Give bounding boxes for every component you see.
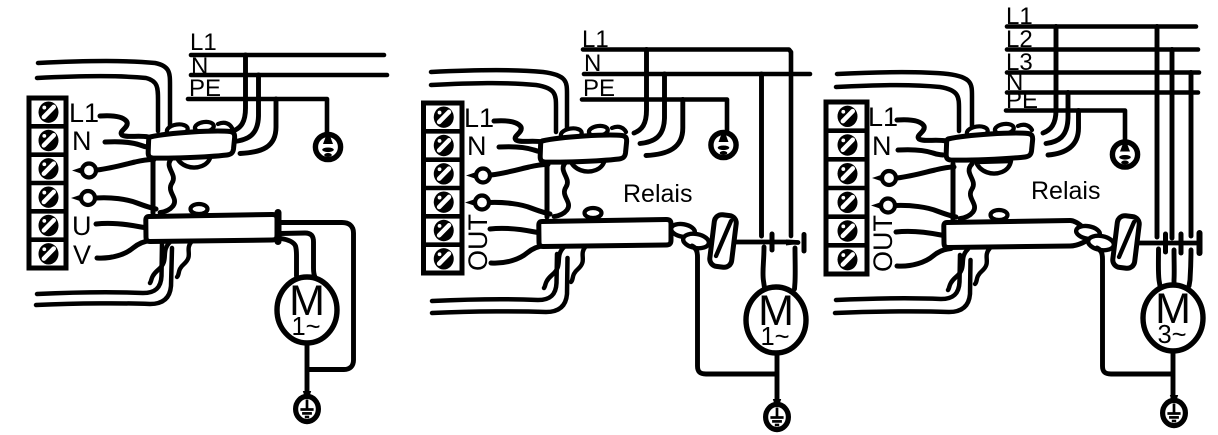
svg-text:L1: L1 <box>69 98 99 128</box>
wire bundle bottom-left P1 (inner) <box>36 248 172 305</box>
svg-text:1~: 1~ <box>291 313 320 341</box>
contact tick 2 P2 <box>802 235 807 252</box>
screw terminal X3.4 <box>838 192 858 213</box>
wire eyelet2 to controller P3 <box>896 205 956 217</box>
lower bar end cap P1 <box>275 213 282 242</box>
wire eyelet1 to controller P2 <box>491 165 548 176</box>
upper bar lug 2 P1 <box>194 121 214 134</box>
svg-text:L1: L1 <box>582 26 609 53</box>
screw terminal X3.2 <box>838 134 858 155</box>
wire eyelet P3 lower <box>871 202 881 209</box>
controller flap P1 <box>176 155 211 168</box>
wire eyelet1 to controller P1 <box>97 160 154 171</box>
controller upper bar P3 <box>946 133 1032 160</box>
terminal block X1 <box>29 98 66 268</box>
wire U terminal to controller P1 <box>96 223 150 228</box>
screw terminal X2.1 <box>434 106 454 127</box>
contact tick 2 P3 <box>1179 234 1184 253</box>
screw terminal X2.6 <box>434 248 454 269</box>
screw terminal X1.3 <box>39 158 59 179</box>
bus wire PE P2 <box>582 100 727 134</box>
wire contact to motor v P3 <box>1172 250 1177 286</box>
ground symbol PE3 <box>1170 395 1178 403</box>
screw terminal X1.1 <box>39 101 59 122</box>
terminal block X3 <box>826 102 867 274</box>
wire N terminal to controller P3 <box>898 150 943 155</box>
contact tip P2 <box>786 240 800 246</box>
upper bar lug 2 P3 <box>994 123 1014 136</box>
bus wire L1 P3 <box>1007 24 1196 29</box>
screw terminal X2.5 <box>434 220 454 241</box>
controller squiggle wire P3 <box>960 164 975 219</box>
screw terminal X3.1 <box>838 106 858 127</box>
controller left edge wire P2 <box>545 162 550 217</box>
relay contact actuator K3 <box>1112 215 1140 269</box>
wire PE drop P1 <box>240 99 276 154</box>
wire N drop P3 <box>1046 93 1068 144</box>
svg-text:N: N <box>872 131 892 161</box>
contact tick 1 P2 <box>770 234 775 250</box>
screw terminal X2.2 <box>434 135 454 156</box>
wire L1 drop P1 <box>233 55 246 131</box>
earth electrode symbol E2 <box>711 132 736 157</box>
wire bundle top-left P2 (outer) <box>431 70 567 130</box>
hook wire P3 <box>1018 125 1032 130</box>
wire switched L to motor loop P1 <box>280 223 354 370</box>
wire bundle bottom-left P3 (inner) <box>835 260 971 313</box>
wire motor to ground P2 <box>775 351 780 406</box>
lug link 2 P2 <box>682 232 710 250</box>
wire V terminal to controller P1 <box>97 241 151 259</box>
earth electrode symbol E1 <box>315 134 340 159</box>
screw terminal X1.2 <box>39 130 59 151</box>
wire OUT wire1 to controller P3 <box>896 231 950 236</box>
upper bar lug 1 P3 <box>966 125 988 139</box>
screw terminal X2.3 <box>434 163 454 184</box>
wire eyelet2 to controller P2 <box>490 202 550 214</box>
wire eyelet P1 lower <box>71 195 81 202</box>
wire L2 vertical to contact P3 <box>1170 50 1175 239</box>
wire N terminal to controller P2 <box>499 147 544 152</box>
controller lug oval P3 <box>991 210 1008 220</box>
svg-text:OUT: OUT <box>463 214 493 271</box>
relay lever wire P2 <box>716 221 731 256</box>
wire eyelet2 to controller P1 <box>96 198 156 209</box>
wire bundle top-left P1 (inner) <box>37 76 158 131</box>
bus wire L1 P2 with drop to contact <box>583 50 791 237</box>
svg-text:Relais: Relais <box>623 180 692 208</box>
wire L3 vertical to contact P3 <box>1189 73 1194 237</box>
wire switched N to motor top-left P1 <box>281 239 297 277</box>
bus wire PE P3 <box>1006 111 1125 144</box>
wire PE drop P2 <box>646 100 683 156</box>
controller squiggle wire P1 <box>160 158 175 213</box>
relay contact line P3 <box>1139 241 1196 246</box>
wire OUT wire2 to controller P2 <box>491 246 545 264</box>
wire L1 drop P2 <box>634 50 647 134</box>
wire relay return to motor ground node P2 <box>692 246 775 374</box>
relay lever wire P3 <box>1119 222 1134 257</box>
wire eyelet P2 lower <box>465 199 475 206</box>
controller flap P3 <box>976 161 1011 174</box>
screw terminal X1.4 <box>39 186 59 207</box>
svg-text:PE: PE <box>1006 87 1038 114</box>
svg-text:L1: L1 <box>190 29 217 56</box>
wire L1 vertical to contact P3 <box>1155 27 1160 238</box>
svg-text:V: V <box>73 240 91 270</box>
controller upper bar P1 <box>148 131 234 158</box>
wire relay return to motor ground node P3 <box>1097 248 1171 374</box>
wire below bar 2 P1 <box>177 241 192 277</box>
wire below bar 2 P2 <box>571 246 586 282</box>
screw terminal X3.5 <box>838 220 858 241</box>
wire contact to motor a P2 <box>763 247 765 288</box>
bus wire N P1 <box>191 73 387 78</box>
controller lower bar P3 <box>944 220 1091 247</box>
wire contact to motor u P3 <box>1158 249 1160 286</box>
svg-text:L1: L1 <box>464 103 494 133</box>
controller lower bar P1 <box>146 214 277 241</box>
wire L1 drop P3 <box>1043 27 1056 134</box>
screw terminal X1.5 <box>39 215 59 236</box>
bus wire N P3 <box>1007 90 1198 95</box>
wire OUT wire2 to controller P3 <box>897 249 951 267</box>
relay contact line P2 <box>736 240 798 245</box>
svg-text:N: N <box>584 50 601 77</box>
controller squiggle wire P2 <box>554 162 569 217</box>
screw terminal X3.6 <box>838 249 858 270</box>
motor M3 (3~) <box>1143 285 1203 351</box>
wire bundle bottom-left P1 (outer) <box>37 244 162 294</box>
relay contact actuator K2 <box>709 214 737 268</box>
wire L1 terminal to controller P2 <box>494 121 542 142</box>
svg-text:1~: 1~ <box>760 323 789 351</box>
wire contact to motor b P2 <box>792 248 798 289</box>
wire bundle top-left P3 (inner) <box>836 85 959 131</box>
motor M2 (1~) <box>746 287 806 353</box>
controller left edge wire P1 <box>151 158 156 213</box>
svg-text:L1: L1 <box>868 102 898 132</box>
wire bundle top-left P3 (outer) <box>837 72 972 130</box>
wire OUT wire1 to controller P2 <box>490 228 544 233</box>
wire below bar 1 P2 <box>544 247 564 288</box>
bus wire L3 P3 <box>1007 70 1199 75</box>
screw terminal X1.6 <box>39 243 59 264</box>
ground symbol PE2 <box>773 399 781 407</box>
controller left edge wire P3 <box>951 164 956 219</box>
contact end cap P3 <box>1197 233 1203 253</box>
lug link 2 P3 <box>1087 234 1115 252</box>
screw terminal X3.3 <box>838 163 858 184</box>
svg-text:OUT: OUT <box>868 215 898 272</box>
svg-text:U: U <box>72 211 92 241</box>
contact tick 1 P3 <box>1163 234 1168 252</box>
wire N vertical to motor P2 <box>759 74 764 236</box>
wire N terminal to controller P1 <box>105 142 150 148</box>
svg-text:PE: PE <box>189 75 221 102</box>
wire bundle bottom-left P2 (outer) <box>432 254 557 301</box>
wire eyelet P2 upper <box>466 172 476 179</box>
upper bar lug 1 P1 <box>166 123 188 137</box>
controller lug oval P1 <box>191 204 208 214</box>
wire below bar 2 P3 <box>975 248 990 284</box>
screw terminal X2.4 <box>434 191 454 212</box>
upper bar lug 2 P2 <box>588 125 608 138</box>
bus wire PE P1 <box>188 99 327 134</box>
wire PE drop P3 <box>1048 111 1079 156</box>
wire bundle bottom-left P3 (outer) <box>836 255 960 300</box>
wire eyelet P3 upper <box>872 175 882 182</box>
bus wire N P2 <box>584 72 810 77</box>
motor M1 (1~) <box>277 277 337 343</box>
bus wire L2 P3 <box>1007 47 1198 52</box>
svg-text:N: N <box>72 126 92 156</box>
hook wire P1 <box>218 123 232 128</box>
wire below bar 1 P3 <box>948 249 968 290</box>
wire bundle bottom-left P2 (inner) <box>432 258 568 313</box>
wire switched L to motor top-right P1 <box>280 233 315 277</box>
wire bundle top-left P1 (outer) <box>38 61 170 129</box>
lug link 1 P2 <box>670 222 696 239</box>
wire N drop P1 <box>234 75 259 142</box>
controller lug oval P2 <box>585 208 602 218</box>
wire below bar 1 P1 <box>150 242 170 283</box>
ground symbol PE1 <box>303 391 311 399</box>
earth electrode symbol E3 <box>1112 142 1137 167</box>
bus wire L1 P1 <box>191 53 384 58</box>
wire N drop P2 <box>640 74 665 144</box>
wire motor to ground P1 <box>305 343 310 398</box>
controller lower bar P2 <box>539 219 671 246</box>
svg-text:Relais: Relais <box>1031 177 1100 205</box>
wire L1 terminal to controller P1 <box>100 116 148 137</box>
wire motor to ground P3 <box>1171 350 1176 402</box>
wire eyelet1 to controller P3 <box>897 167 954 178</box>
controller flap P2 <box>570 159 605 172</box>
svg-text:3~: 3~ <box>1157 321 1186 349</box>
upper bar lug 1 P2 <box>560 127 582 141</box>
lug link 1 P3 <box>1075 224 1101 241</box>
terminal block X2 <box>424 103 463 273</box>
wire bundle top-left P2 (inner) <box>431 83 556 132</box>
svg-text:N: N <box>467 131 487 161</box>
wire contact to motor w P3 <box>1189 250 1191 286</box>
svg-text:PE: PE <box>583 75 615 102</box>
controller upper bar P2 <box>540 135 626 162</box>
wire eyelet P1 upper <box>72 167 82 174</box>
wire L1 terminal to controller P3 <box>897 120 946 141</box>
hook wire P2 <box>612 127 626 132</box>
